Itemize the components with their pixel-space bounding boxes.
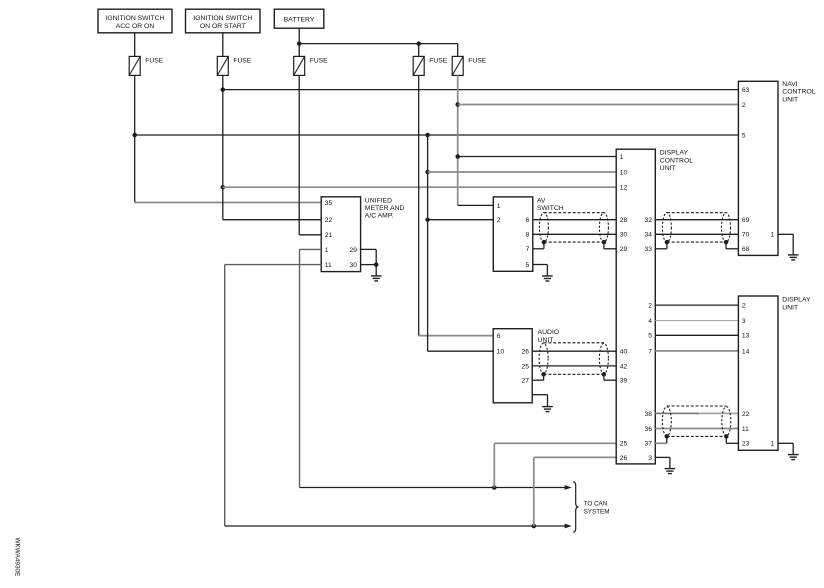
svg-text:2: 2 [497, 217, 501, 224]
svg-text:TO CANSYSTEM: TO CANSYSTEM [584, 501, 610, 516]
svg-text:68: 68 [742, 246, 750, 253]
wire AUDIO 25 to DCU 42 [532, 365, 616, 367]
node S8 shield-drain DU [724, 434, 729, 439]
svg-text:26: 26 [620, 455, 628, 462]
svg-text:21: 21 [325, 232, 333, 239]
svg-text:26: 26 [522, 349, 530, 356]
node S7 shield-drain DCU 37 [665, 434, 670, 439]
node F2A IGN to NAVI 63 [221, 87, 226, 92]
wire AV 8 to DCU 30 [533, 233, 616, 235]
svg-text:4: 4 [648, 318, 652, 325]
node F5A to NAVI 2 [455, 102, 460, 107]
svg-text:69: 69 [742, 217, 750, 224]
wire display unit pin 1 to ground [778, 442, 793, 444]
svg-text:28: 28 [620, 217, 628, 224]
wire unified meter pin 11 CAN-L [225, 264, 322, 266]
node G1 pins 29/30 join [374, 262, 379, 267]
wire fuse F3 output vertical [298, 75, 300, 234]
fuse F3 (BAT) [294, 56, 328, 75]
arrowhead CAN-H [565, 485, 572, 490]
svg-text:29: 29 [350, 247, 358, 254]
fuse F5 (BAT) [452, 56, 486, 75]
svg-text:27: 27 [522, 378, 530, 385]
wire battery feed to NAVI pin 2 [458, 104, 739, 106]
svg-text:37: 37 [645, 441, 653, 448]
node B2 fuse F4 tap [416, 41, 421, 46]
power source box IGNITION SWITCH ACC OR ON [98, 9, 172, 33]
wire battery feed to AV switch pin 1 [458, 204, 494, 206]
wire NAVI pin 1 to ground [778, 233, 793, 235]
wire fuse F1 output vertical [134, 75, 136, 202]
ground AV switch [542, 276, 553, 281]
svg-text:7: 7 [648, 348, 652, 355]
svg-text:38: 38 [645, 411, 653, 418]
svg-text:WKWA4930E: WKWA4930E [14, 538, 21, 577]
node S1 shield-drain AV [542, 240, 547, 245]
svg-text:42: 42 [620, 363, 628, 370]
power source box BATTERY [274, 9, 324, 28]
svg-text:1: 1 [497, 203, 501, 210]
wire battery to node B1 [298, 28, 300, 56]
unified meter and A/C amp box [321, 197, 360, 272]
svg-text:23: 23 [742, 441, 750, 448]
svg-text:33: 33 [645, 246, 653, 253]
wire AUDIO 26 to DCU 40 [532, 350, 616, 352]
wire ACC branch to audio unit pin 10 [428, 350, 494, 352]
svg-text:11: 11 [742, 426, 749, 433]
wire fuse F5 output vertical [457, 75, 459, 205]
node B1 battery junction [297, 41, 302, 46]
wire unified meter pin 30 to ground leg [361, 264, 377, 266]
wire fuse F2 output vertical [222, 75, 224, 219]
wire DCU pin 26 to CAN-L [534, 456, 616, 458]
display control unit box [616, 149, 655, 464]
svg-text:34: 34 [645, 232, 653, 239]
wire audio unit case to ground [532, 394, 547, 396]
wire ACC branch vertical [427, 135, 429, 351]
fuse F1 (ACC) [129, 56, 163, 75]
wire AV switch pin 5 to ground [533, 264, 548, 266]
wire DCU 39 shield drain [604, 379, 616, 381]
shield dashes DCU-DU [667, 405, 727, 407]
svg-text:32: 32 [645, 217, 653, 224]
brace to CAN system [573, 482, 578, 533]
shield ellipse NAVI side [722, 213, 731, 243]
ground navi control unit [788, 255, 799, 260]
AV switch box [493, 197, 533, 271]
wire unified meter pin 1 CAN-H [300, 248, 322, 250]
svg-text:FUSE: FUSE [468, 57, 486, 64]
svg-text:FUSE: FUSE [310, 57, 328, 64]
node C2 DCU 26 joins CAN-L [532, 524, 537, 529]
wire DCU 38 to display unit 22 [655, 412, 699, 414]
audio unit box [493, 329, 532, 403]
svg-text:12: 12 [620, 185, 628, 192]
ground unified meter [371, 276, 382, 281]
wire AUDIO 27 shield drain [532, 379, 543, 381]
svg-text:1: 1 [771, 232, 775, 239]
shield ellipse DCU side lower [599, 343, 608, 374]
svg-text:25: 25 [522, 363, 530, 370]
svg-text:30: 30 [350, 262, 358, 269]
svg-text:2: 2 [742, 303, 746, 310]
svg-text:13: 13 [742, 333, 750, 340]
svg-text:40: 40 [620, 349, 628, 356]
svg-text:63: 63 [742, 87, 750, 94]
wire ignition ACC to fuse F1 [134, 33, 136, 57]
node S6 shield-drain DCU 39 [602, 372, 607, 377]
shield ellipse DCU right side [662, 213, 671, 243]
svg-text:ACC OR ON: ACC OR ON [116, 23, 155, 30]
fuse F2 (IGN) [217, 56, 251, 75]
wire NAVI 68 shield drain [726, 248, 738, 250]
wire DCU 32 to NAVI 69 [655, 219, 738, 221]
wire ignition ON/START to fuse F2 [222, 33, 224, 57]
wire DCU 37 shield drain [655, 442, 667, 444]
svg-text:3: 3 [648, 455, 652, 462]
shield ellipse at AV side [539, 213, 548, 243]
shield dashes AUDIO-DCU [544, 342, 604, 344]
wire IGN feed to display control unit pin 12 [223, 186, 616, 188]
svg-text:39: 39 [620, 378, 628, 385]
shield ellipse at DCU side [599, 213, 608, 243]
ground audio unit [542, 407, 553, 412]
shield ellipse audio side [539, 343, 548, 374]
svg-text:BATTERY: BATTERY [284, 17, 315, 24]
wire CAN-L bus row [225, 525, 565, 527]
wire battery feed to display control unit pin 1 [458, 156, 617, 158]
node F5B to DCU 1 [455, 154, 460, 159]
wire DCU pin 3 to ground [655, 456, 670, 458]
wire DCU 5 to display unit 13 [655, 334, 738, 336]
node S3 shield-drain DCU right [665, 240, 670, 245]
shield ellipse DCU-DU left [662, 407, 671, 436]
node S5 shield-drain audio [541, 372, 546, 377]
node A2 to DCU 10 [425, 170, 430, 175]
wire DCU 34 to NAVI 70 [655, 233, 738, 235]
ground display unit [788, 455, 799, 460]
svg-text:35: 35 [325, 200, 333, 207]
wire DU 23 shield drain [726, 442, 738, 444]
wire AV 6 to DCU 28 [533, 219, 616, 221]
svg-text:1: 1 [325, 247, 329, 254]
svg-text:IGNITION SWITCH: IGNITION SWITCH [193, 15, 252, 22]
display unit box [738, 296, 778, 450]
svg-text:25: 25 [620, 441, 628, 448]
wire ACC feed to NAVI pin 5 [135, 134, 739, 136]
svg-text:29: 29 [620, 246, 628, 253]
wire unified meter pin 29 to ground leg [361, 248, 377, 250]
svg-text:1: 1 [620, 154, 624, 161]
svg-text:22: 22 [325, 217, 333, 224]
wire DCU 33 shield drain [655, 248, 667, 250]
node F1A on ACC line [132, 133, 137, 138]
node F2B IGN to DCU 12 [221, 185, 226, 190]
svg-text:30: 30 [620, 232, 628, 239]
navi control unit box [738, 81, 778, 255]
wire DCU 2 to display unit 2 [655, 304, 738, 306]
wire fuse F4 feed to audio unit pin 6 [419, 335, 494, 337]
wire fuse F4 output vertical [418, 75, 420, 335]
svg-text:FUSE: FUSE [429, 57, 447, 64]
wire DCU 29 shield drain [604, 248, 616, 250]
wire IGN feed to NAVI pin 63 [223, 89, 739, 91]
svg-text:1: 1 [771, 441, 775, 448]
wire battery bus drop to fuse F5 [457, 44, 459, 57]
svg-text:5: 5 [648, 333, 652, 340]
node S4 shield-drain NAVI [724, 240, 729, 245]
svg-text:5: 5 [526, 262, 530, 269]
wire battery feed to unified meter pin 21 [299, 234, 321, 236]
svg-text:6: 6 [526, 217, 530, 224]
svg-text:70: 70 [742, 232, 750, 239]
node C1 DCU 25 joins CAN-H [492, 485, 497, 490]
fuse F4 (BAT) [413, 56, 447, 75]
wire CAN-H bus row [300, 487, 566, 489]
svg-text:11: 11 [325, 262, 332, 269]
shield dashes DCU-NAVI [667, 212, 726, 214]
wire ACC branch to AV switch pin 2 [428, 219, 494, 221]
wire DCU pin 25 to CAN-H [494, 442, 616, 444]
node S2 shield-drain DCU left [602, 240, 607, 245]
power source box IGNITION SWITCH ON OR START [186, 9, 261, 33]
arrowhead CAN-L [565, 524, 572, 529]
svg-text:ON OR START: ON OR START [200, 23, 246, 30]
svg-text:6: 6 [497, 333, 501, 340]
shield dashes AV-DCU [544, 212, 604, 214]
svg-text:14: 14 [742, 348, 750, 355]
wire IGN feed to unified meter pin 22 [223, 219, 321, 221]
node A1 ACC branch [425, 133, 430, 138]
svg-text:2: 2 [648, 303, 652, 310]
svg-text:FUSE: FUSE [233, 57, 251, 64]
svg-text:5: 5 [742, 132, 746, 139]
svg-text:3: 3 [742, 318, 746, 325]
wire battery feed bus to fuses F4 F5 [299, 43, 458, 45]
svg-text:8: 8 [526, 232, 530, 239]
wire DCU 7 to display unit 14 [655, 350, 738, 352]
svg-text:10: 10 [497, 349, 505, 356]
svg-text:10: 10 [620, 169, 628, 176]
wire battery bus drop to fuse F4 [418, 44, 420, 57]
ground display control unit [665, 469, 676, 474]
shield ellipse DCU-DU right [722, 407, 731, 436]
svg-text:FUSE: FUSE [145, 57, 163, 64]
svg-text:IGNITION SWITCH: IGNITION SWITCH [106, 15, 165, 22]
svg-text:22: 22 [742, 411, 750, 418]
node A3 to AV switch 2 [425, 217, 430, 222]
svg-text:36: 36 [645, 426, 653, 433]
svg-text:7: 7 [526, 246, 530, 253]
wire DCU 36 to display unit 11 [655, 428, 738, 430]
svg-text:2: 2 [742, 102, 746, 109]
wire AV 7 shield drain [533, 248, 544, 250]
wire ACC feed to unified meter pin 35 [135, 202, 322, 204]
wire DCU 4 to display unit 3 [655, 320, 738, 322]
wire ACC branch to display control unit pin 10 [428, 171, 617, 173]
